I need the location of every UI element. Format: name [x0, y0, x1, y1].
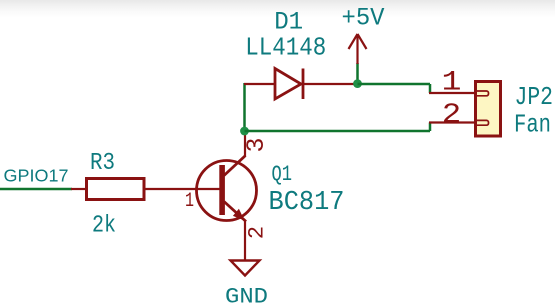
wire GPIO17 to R3: [0, 188, 72, 191]
svg-text:LL4148: LL4148: [245, 32, 326, 62]
wire collector up to diode corner: [243, 83, 246, 131]
power +5V symbol: [349, 34, 367, 84]
label BC817: [269, 188, 345, 218]
pin 2 number JP2: [442, 100, 462, 131]
label 2k: [92, 213, 116, 240]
junction at +5V: [353, 79, 362, 88]
transistor Q1: [197, 134, 257, 260]
label JP2: [515, 82, 554, 112]
svg-text:2: 2: [245, 226, 270, 239]
svg-text:GND: GND: [225, 285, 268, 307]
resistor R3: [71, 179, 221, 200]
svg-text:1: 1: [442, 68, 462, 99]
svg-text:2k: 2k: [92, 213, 116, 240]
connector JP2: [429, 82, 501, 137]
label Fan: [514, 110, 551, 140]
label R3: [90, 150, 115, 177]
diode D1: [244, 69, 358, 100]
pin 3 (collector) number: [242, 137, 271, 152]
svg-text:GPIO17: GPIO17: [4, 166, 69, 186]
svg-text:2: 2: [442, 100, 462, 131]
svg-text:R3: R3: [90, 150, 115, 177]
svg-text:+5V: +5V: [342, 4, 385, 33]
svg-text:BC817: BC817: [269, 188, 345, 218]
wire top to JP2 pin1: [358, 84, 431, 93]
svg-text:Fan: Fan: [514, 110, 551, 140]
svg-text:JP2: JP2: [515, 82, 554, 112]
svg-text:1: 1: [185, 190, 194, 213]
label GPIO17: [4, 166, 69, 186]
pin 1 number JP2: [442, 68, 462, 99]
label D1: [274, 8, 303, 37]
label GND: [225, 285, 268, 307]
label Q1: [272, 162, 293, 187]
pin 2 (emitter) number: [245, 226, 270, 239]
pin 1 (base) number: [185, 190, 194, 213]
wire bottom to JP2 pin2: [245, 123, 431, 132]
svg-text:Q1: Q1: [272, 162, 293, 187]
svg-text:3: 3: [242, 137, 271, 152]
ground: [231, 261, 260, 276]
junction at collector: [240, 127, 249, 136]
label LL4148: [245, 32, 326, 62]
label +5V: [342, 4, 385, 33]
